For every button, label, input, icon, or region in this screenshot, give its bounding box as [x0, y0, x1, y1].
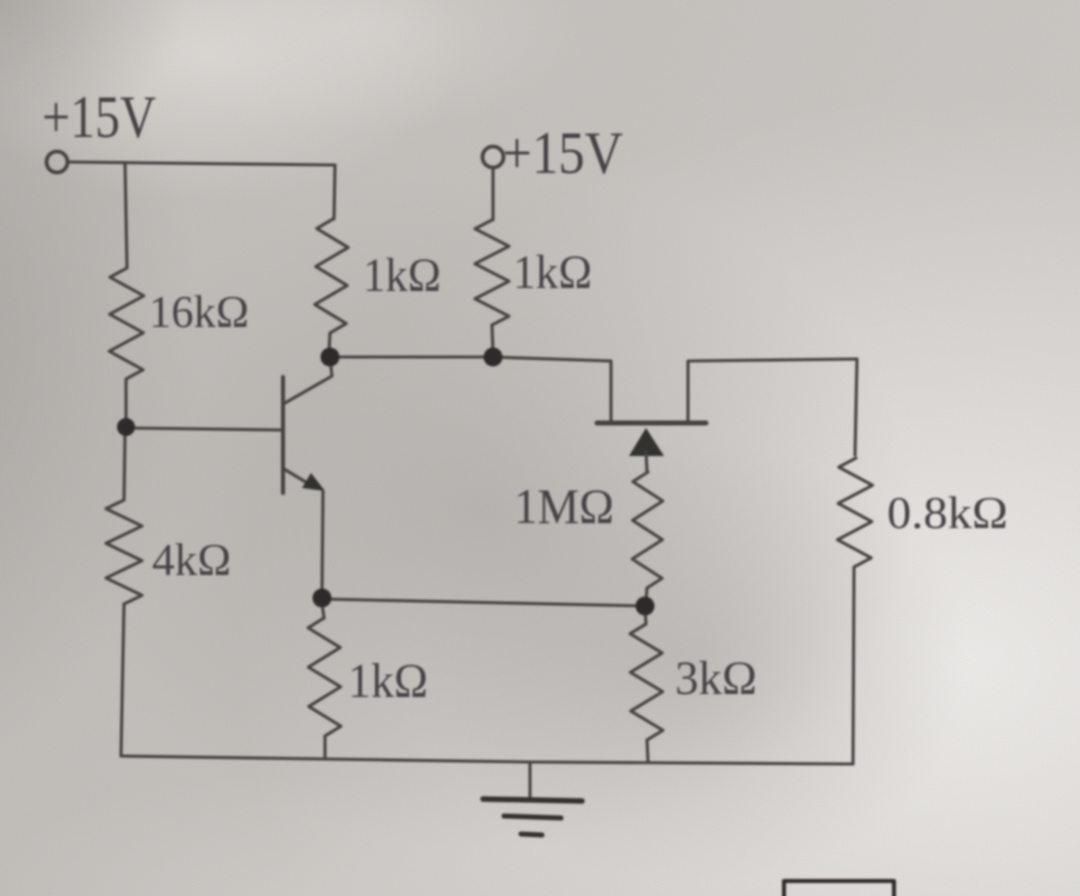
wire 0.8k to rail: [853, 567, 854, 764]
wire 1M to node D: [646, 588, 647, 601]
resistor R 16k: [109, 268, 144, 379]
svg-text:1kΩ: 1kΩ: [513, 246, 592, 299]
transistor Q1 base bar: [281, 377, 285, 493]
wire mid branch down: [334, 165, 335, 219]
node B dot: [321, 348, 340, 367]
svg-text:+15V: +15V: [502, 120, 623, 186]
wire bottom rail: [121, 756, 853, 764]
wire base from node A: [128, 428, 281, 430]
wire node C to gate: [493, 357, 611, 420]
wire node B to node C: [330, 355, 493, 358]
transistor Q2 channel bar: [597, 421, 706, 426]
svg-text:1kΩ: 1kΩ: [348, 653, 428, 708]
resistor R 1k bottom: [308, 618, 341, 736]
wire node E to 1k bottom: [322, 603, 324, 618]
wire node E to node D: [322, 599, 645, 606]
wire 4k to bottom rail: [121, 604, 124, 756]
wire source to 1M: [646, 452, 647, 472]
wire drain up and right to 0.8k: [688, 359, 857, 455]
ground bar 3: [521, 834, 542, 835]
wire 1k mid to node B: [329, 333, 330, 352]
svg-text:4kΩ: 4kΩ: [152, 534, 231, 585]
resistor R 1k mid: [315, 219, 348, 333]
transistor Q1 collector limb: [285, 358, 332, 403]
transistor Q1 emitter arrow: [302, 473, 325, 491]
wire 3k to rail: [647, 740, 648, 762]
wire 1k bottom to rail: [323, 736, 326, 757]
transistor Q2 source arrow: [629, 428, 664, 456]
terminal +15V left: [47, 152, 68, 173]
box next figure corner: [784, 881, 894, 896]
ground bar 1: [483, 799, 582, 801]
wire left branch down: [125, 163, 127, 268]
transistor Q1 emitter limb: [284, 469, 309, 484]
wire 1k right to node C: [492, 325, 493, 353]
svg-text:16kΩ: 16kΩ: [149, 286, 249, 337]
wire 16k to node A: [124, 379, 127, 421]
ground bar 2: [504, 816, 561, 818]
resistor R 3k: [630, 624, 663, 740]
node D dot: [636, 597, 655, 616]
resistor R 1k right: [475, 220, 509, 325]
resistor R 4k: [106, 500, 142, 604]
svg-text:3kΩ: 3kΩ: [675, 652, 757, 705]
wire top rail: [68, 162, 335, 165]
terminal +15V right: [483, 147, 504, 168]
svg-text:1kΩ: 1kΩ: [363, 249, 441, 302]
wire emitter down to node E: [322, 491, 323, 593]
node A dot: [117, 418, 135, 436]
svg-text:0.8kΩ: 0.8kΩ: [887, 487, 1008, 538]
wire node D to 3k: [645, 610, 646, 624]
wire node A to 4k: [124, 433, 125, 500]
node E dot: [313, 589, 332, 608]
node C dot: [484, 348, 503, 367]
resistor R 0.8k: [838, 458, 873, 567]
ground stem: [528, 762, 531, 798]
svg-text:1MΩ: 1MΩ: [514, 478, 614, 534]
svg-text:+15V: +15V: [42, 84, 156, 150]
wire supply2 down: [491, 168, 494, 220]
resistor R 1M: [632, 472, 663, 588]
